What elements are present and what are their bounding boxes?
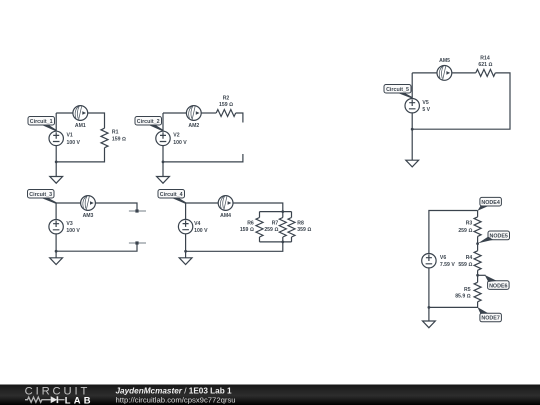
svg-text:R1: R1: [112, 129, 119, 135]
resistor R8: [288, 212, 311, 242]
svg-text:JaydenMcmaster / 1E03 Lab 1: JaydenMcmaster / 1E03 Lab 1: [116, 387, 233, 396]
svg-text:R8: R8: [297, 221, 304, 227]
voltage source V2: [156, 131, 170, 145]
wire R5 to bottom: [429, 302, 478, 308]
wire R2 right with open stub: [236, 113, 243, 123]
junction NODE6: [476, 274, 479, 277]
ammeter AM2: [186, 106, 201, 121]
wire V2 bottom to ground: [162, 146, 164, 177]
svg-text:Circuit_3: Circuit_3: [29, 192, 52, 198]
ground C4: [179, 258, 192, 265]
logo diode: [51, 396, 65, 403]
junction top bus: [281, 210, 284, 213]
junction C4: [184, 250, 187, 253]
voltage source V5: [405, 99, 419, 113]
logo resistor zigzag: [25, 397, 51, 402]
wire node4 to R3: [477, 211, 479, 217]
svg-text:100 V: 100 V: [67, 140, 81, 146]
resistor R4: [474, 251, 481, 270]
junction C2: [162, 161, 165, 164]
junction C5: [411, 128, 414, 131]
wire top left segment C3: [56, 202, 81, 204]
wire AM1 to R1: [88, 113, 105, 128]
svg-text:V3: V3: [66, 221, 72, 227]
wire V1 top stub: [55, 113, 57, 131]
svg-text:NODE7: NODE7: [481, 316, 499, 322]
wire V3 bottom to ground: [55, 234, 57, 258]
wire V4 bottom to ground: [185, 234, 187, 258]
ground C1: [50, 177, 63, 184]
flag NODE4: [478, 197, 502, 210]
wire R14 right and down: [412, 73, 510, 129]
flag Circuit_3: [28, 190, 57, 204]
svg-text:AM5: AM5: [439, 58, 450, 64]
svg-text:5 V: 5 V: [422, 107, 430, 113]
wire bottom open stub C2: [163, 154, 243, 162]
resistor R14: [476, 69, 496, 76]
voltage source V3: [49, 220, 63, 234]
svg-text:100 V: 100 V: [173, 140, 187, 146]
ammeter AM4: [218, 196, 233, 211]
junction NODE5: [476, 242, 479, 245]
flag Circuit_4: [158, 190, 186, 204]
wire V6 top: [429, 211, 478, 254]
ground C2: [157, 177, 170, 184]
svg-text:V1: V1: [67, 133, 73, 139]
flag Circuit_2: [135, 117, 164, 132]
svg-text:559 Ω: 559 Ω: [458, 262, 472, 268]
flag NODE6: [478, 275, 510, 290]
junction C1: [55, 161, 58, 164]
svg-text:AM2: AM2: [188, 123, 199, 129]
svg-text:7.59 V: 7.59 V: [440, 262, 455, 268]
wire AM4 to bank feed: [233, 203, 283, 212]
svg-text:259 Ω: 259 Ω: [264, 227, 278, 233]
svg-text:R5: R5: [464, 287, 471, 293]
svg-text:AM3: AM3: [83, 213, 94, 219]
wire top left segment C1: [56, 112, 73, 114]
wire R3 to R4: [477, 236, 479, 250]
junction bottom bus: [281, 241, 284, 244]
wire R4 to R5: [477, 270, 479, 282]
svg-text:LAB: LAB: [65, 394, 94, 405]
svg-text:R2: R2: [223, 95, 230, 101]
junction V6 bottom: [428, 306, 431, 309]
svg-text:85.9 Ω: 85.9 Ω: [455, 294, 470, 300]
footer bar: [0, 385, 540, 405]
resistor R7: [264, 212, 286, 242]
voltage source V1: [49, 131, 63, 145]
voltage source V6: [422, 254, 436, 268]
svg-text:V5: V5: [422, 100, 428, 106]
wire V3 top stub: [55, 203, 57, 220]
wire bottom right C3: [56, 243, 137, 251]
svg-text:V4: V4: [194, 221, 200, 227]
svg-text:621 Ω: 621 Ω: [478, 62, 492, 68]
terminal bottom C3: [129, 241, 146, 244]
svg-text:Circuit_4: Circuit_4: [160, 192, 183, 198]
svg-text:V6: V6: [440, 255, 446, 261]
resistor R1: [101, 128, 108, 148]
voltage source V4: [178, 219, 192, 233]
svg-text:NODE4: NODE4: [481, 200, 499, 206]
svg-text:R7: R7: [272, 221, 279, 227]
resistor R3: [474, 217, 481, 237]
wire V2 top stub: [162, 113, 164, 131]
wire AM5 to R14: [452, 72, 476, 74]
ammeter AM5: [437, 66, 452, 81]
wire AM3 to open terminal: [95, 203, 137, 211]
svg-text:NODE6: NODE6: [489, 283, 507, 289]
svg-text:http://circuitlab.com/cpsx9c77: http://circuitlab.com/cpsx9c772qrsu: [116, 395, 236, 404]
wire V5 top stub: [411, 73, 413, 99]
flag NODE7: [478, 307, 502, 322]
svg-text:159 Ω: 159 Ω: [240, 227, 254, 233]
svg-text:Circuit_1: Circuit_1: [30, 119, 53, 125]
wire V5 bottom to ground: [411, 113, 413, 160]
top bus C4: [260, 211, 292, 213]
flag Circuit_5: [384, 85, 413, 99]
wire top left segment C5: [412, 72, 437, 74]
junction C3: [55, 250, 58, 253]
svg-text:NODE5: NODE5: [489, 234, 507, 240]
svg-text:AM1: AM1: [75, 123, 86, 129]
wire top left segment C2: [163, 112, 186, 114]
ammeter AM1: [73, 106, 88, 121]
svg-text:Circuit_2: Circuit_2: [137, 119, 160, 125]
svg-text:R3: R3: [466, 221, 473, 227]
svg-text:159 Ω: 159 Ω: [112, 137, 126, 143]
wire V4 top stub: [185, 203, 187, 219]
resistor R2: [216, 110, 236, 117]
svg-text:V2: V2: [173, 133, 179, 139]
resistor R5: [474, 282, 481, 302]
wire V1 bottom to ground: [55, 146, 57, 177]
svg-text:100 V: 100 V: [66, 228, 80, 234]
svg-text:259 Ω: 259 Ω: [458, 228, 472, 234]
wire AM2 to R2: [201, 112, 216, 114]
wire V6 bottom to ground: [428, 268, 430, 321]
svg-text:359 Ω: 359 Ω: [297, 227, 311, 233]
bottom bus C4: [260, 241, 292, 243]
flag Circuit_1: [28, 117, 57, 132]
svg-text:R4: R4: [466, 255, 473, 261]
ground C3: [50, 258, 63, 265]
resistor R6: [240, 212, 263, 242]
terminal top C3: [129, 209, 146, 212]
ground V6: [423, 321, 436, 328]
svg-text:R6: R6: [247, 221, 254, 227]
flag NODE5: [478, 231, 510, 243]
ammeter AM3: [81, 196, 96, 211]
wire R1 bottom: [56, 148, 104, 162]
svg-text:R14: R14: [480, 56, 490, 62]
svg-text:100 V: 100 V: [194, 228, 208, 234]
svg-text:AM4: AM4: [220, 213, 231, 219]
svg-text:159 Ω: 159 Ω: [219, 102, 233, 108]
wire top left segment C4: [186, 202, 219, 204]
wire bank to bottom C4: [186, 242, 283, 251]
svg-text:Circuit_5: Circuit_5: [386, 87, 409, 93]
ground C5: [406, 160, 419, 167]
